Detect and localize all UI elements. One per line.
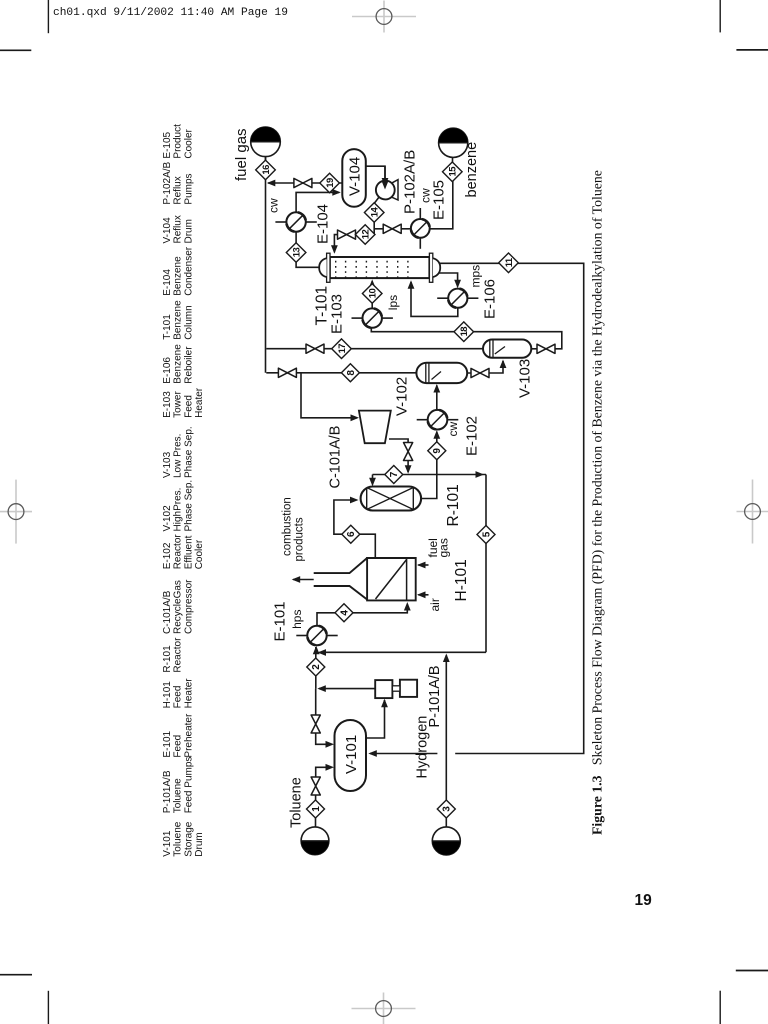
wire stream 10 to T-101 feed [371, 281, 373, 285]
svg-text:Benzene: Benzene [173, 256, 184, 296]
top-right crop mark vertical [719, 0, 721, 32]
svg-text:ch01.qxd 9/11/2002 11:40 AM: ch01.qxd 9/11/2002 11:40 AM Page 19 [53, 7, 288, 19]
svg-text:E-103: E-103 [329, 294, 346, 334]
svg-text:P-102A/B: P-102A/B [402, 150, 419, 214]
svg-text:fuel gas: fuel gas [233, 128, 250, 181]
wire V-102 liquid to valve [467, 361, 503, 373]
wire P-102 discharge [374, 197, 379, 234]
reactor R-101 [361, 487, 422, 511]
valve V-103 vapor to fuel [306, 344, 324, 353]
valve V-102 liquid letdown [471, 368, 489, 377]
stream diamond 11 [499, 253, 519, 273]
arrow combustion products [292, 576, 301, 583]
svg-text:Low Pres.: Low Pres. [173, 434, 184, 478]
svg-text:HighPres.: HighPres. [173, 488, 184, 532]
svg-text:Feed: Feed [183, 395, 194, 418]
wire H-101 coil outlet riser [360, 534, 375, 558]
svg-text:V-103: V-103 [517, 359, 534, 398]
bottom-left crop mark vertical [47, 991, 49, 1024]
svg-text:18: 18 [459, 327, 470, 337]
wire stream 16 to fuel gas sphere [265, 157, 267, 161]
wire V-104 vapor purge line [268, 182, 342, 184]
svg-text:V-102: V-102 [162, 505, 173, 532]
svg-text:Drum: Drum [194, 832, 205, 856]
svg-text:E-104: E-104 [162, 269, 173, 296]
svg-text:Reflux: Reflux [173, 215, 184, 243]
svg-text:Heater: Heater [194, 387, 205, 418]
wire T-101 bottoms draw to E-106 [438, 273, 458, 287]
svg-text:combustion: combustion [282, 497, 294, 556]
registration mark left [0, 480, 32, 544]
svg-text:14: 14 [370, 207, 381, 218]
svg-text:RecycleGas: RecycleGas [173, 580, 184, 634]
arrow on recycle header to downcomer [476, 471, 485, 478]
svg-text:H-101: H-101 [453, 559, 470, 601]
svg-text:16: 16 [261, 165, 272, 175]
svg-text:V-104: V-104 [347, 157, 364, 196]
vessel V-101 toluene feed drum [335, 720, 367, 791]
wire stream 2 to E-101 [315, 647, 317, 658]
fuel gas sphere [251, 127, 281, 157]
wire V-103 overhead line stream 17 [266, 348, 483, 350]
registration mark bottom [352, 993, 416, 1024]
svg-text:V-102: V-102 [394, 377, 411, 416]
fired heater H-101 [314, 558, 416, 600]
wire stream 1 to valve [315, 795, 317, 800]
wire E-101 outlet to stream 4 [317, 613, 335, 626]
top-left crop mark horizontal [0, 49, 31, 51]
compressor C-101A/B [359, 411, 391, 444]
stream diamond 18 [454, 322, 474, 342]
svg-text:C-101A/B: C-101A/B [328, 426, 344, 489]
arrow air into H-101 [417, 591, 426, 598]
svg-text:Reactor: Reactor [173, 534, 184, 570]
storage sphere toluene [301, 827, 329, 855]
arrow E-106 vapor return into T-101 [408, 280, 415, 289]
wire combustion products outlet [293, 579, 314, 581]
stream diamond 4 [335, 604, 353, 622]
wire C-101 discharge [389, 439, 408, 443]
svg-text:P-102A/B: P-102A/B [162, 161, 173, 204]
svg-text:benzene: benzene [464, 142, 480, 198]
valve V-102 purge to fuel [278, 368, 296, 377]
wire header to fuel gas sphere [265, 157, 267, 179]
arrow C-101 discharge into header [405, 465, 412, 474]
svg-text:15: 15 [448, 166, 459, 177]
svg-text:11: 11 [504, 257, 515, 267]
svg-text:H-101: H-101 [162, 681, 173, 709]
wire toluene sphere to stream 1 [315, 818, 317, 827]
svg-text:Preheater: Preheater [183, 713, 194, 758]
wire recycle header drop into reactor [372, 475, 374, 485]
wire V-102 overhead line [266, 372, 416, 374]
arrow P-101 discharge junction [317, 685, 326, 692]
svg-text:Figure 1.3 Skeleton Process F: Figure 1.3 Skeleton Process Flow Diagram… [590, 170, 606, 835]
stream diamond 7 [385, 466, 403, 484]
arrow purge into fuel header [267, 180, 276, 187]
svg-text:Benzene: Benzene [172, 344, 183, 384]
arrow into E-106 [454, 280, 461, 289]
valve spillback to V-101 [311, 715, 320, 733]
distillation column T-101 [319, 253, 440, 282]
svg-text:5: 5 [481, 531, 492, 537]
svg-text:19: 19 [635, 892, 653, 909]
wire feed line junction to stream 2 [315, 676, 317, 688]
svg-text:6: 6 [346, 531, 357, 537]
arrow into V-101 upper inlet [326, 741, 335, 748]
heat exchanger E-103 tower feed heater [352, 308, 393, 327]
svg-text:products: products [294, 517, 306, 561]
valve benzene product [383, 224, 401, 233]
svg-text:V-104: V-104 [162, 217, 173, 244]
wire E-104 to V-104 [296, 192, 339, 212]
arrow into R-101 top [369, 478, 376, 487]
arrow into P-101 suction [381, 699, 388, 708]
heat exchanger E-102 reactor effluent cooler [417, 410, 459, 430]
stream diamond 8 [341, 364, 359, 382]
svg-text:air: air [428, 598, 442, 611]
svg-text:E-104: E-104 [315, 204, 332, 244]
svg-text:7: 7 [389, 471, 400, 477]
wire V-104 liquid to P-102 [366, 166, 385, 185]
wire stream 11 return to V-101 [370, 753, 437, 755]
svg-text:Cooler: Cooler [183, 128, 194, 158]
svg-text:gas: gas [437, 538, 451, 557]
arrow hydrogen into mixing line [443, 654, 450, 663]
stream diamond 15 [443, 162, 463, 182]
stream diamond 16 [256, 160, 276, 180]
wire stream 3 to mixing line [445, 655, 447, 800]
svg-text:V-103: V-103 [162, 451, 173, 478]
svg-text:cw: cw [267, 198, 281, 213]
valve reflux [338, 230, 356, 239]
svg-text:cw: cw [446, 422, 460, 437]
benzene product sphere [439, 128, 468, 157]
heat exchanger E-105 product cooler [411, 208, 430, 249]
svg-text:1: 1 [311, 806, 322, 812]
svg-text:E-102: E-102 [162, 542, 173, 569]
wire hydrogen sphere to stream 3 [445, 818, 447, 827]
arrow stream 11 into V-101 [368, 750, 377, 757]
stream diamond 2 [307, 658, 325, 676]
wire reflux product tee to E-105 [374, 228, 411, 230]
wire fuel gas header [265, 161, 267, 373]
svg-text:Product: Product [173, 124, 184, 159]
svg-text:Reflux: Reflux [173, 176, 184, 204]
svg-text:E-106: E-106 [162, 357, 173, 384]
wire compressor suction branch [301, 373, 357, 418]
svg-text:E-101: E-101 [272, 601, 289, 641]
valve V-104 purge [294, 178, 312, 187]
wire T-101 bottoms stream 11 line [438, 263, 584, 753]
svg-text:R-101: R-101 [162, 645, 173, 673]
svg-text:3: 3 [442, 806, 453, 812]
svg-text:P-101A/B: P-101A/B [162, 770, 173, 813]
arrow into V-102 [433, 384, 440, 393]
svg-text:12: 12 [361, 230, 372, 240]
stream diamond 5 [477, 526, 495, 544]
equipment summary table [162, 124, 205, 857]
arrow fuel gas into H-101 [417, 562, 426, 569]
svg-text:hps: hps [290, 610, 304, 629]
stream diamond 3 [437, 800, 455, 818]
wire stream 15 to benzene sphere [452, 158, 454, 163]
svg-text:Heater: Heater [183, 678, 194, 709]
svg-text:17: 17 [337, 344, 348, 354]
bottom-left crop mark horizontal [0, 974, 32, 976]
stream diamond 12 [355, 225, 375, 245]
svg-text:Feed: Feed [172, 686, 183, 709]
svg-text:Drum: Drum [183, 219, 194, 243]
svg-text:Benzene: Benzene [173, 300, 184, 340]
heat exchanger E-104 benzene condenser [275, 212, 316, 231]
registration mark top [352, 1, 416, 33]
svg-text:Feed: Feed [173, 735, 184, 758]
wire air stub H-101 [418, 594, 428, 596]
svg-text:8: 8 [346, 370, 357, 376]
label fuel gas H-101 [426, 538, 451, 557]
wire stream 4 to H-101 coil inlet [353, 604, 407, 613]
stream diamond 6 [342, 525, 360, 543]
arrow into T-101 feed [369, 279, 376, 288]
svg-text:T-101: T-101 [162, 314, 173, 340]
valve C-101 discharge [404, 443, 413, 461]
svg-text:E-101: E-101 [162, 730, 173, 757]
svg-text:E-102: E-102 [464, 416, 481, 456]
svg-text:Cooler: Cooler [194, 539, 205, 569]
wire V-103 liquid line [371, 329, 562, 349]
svg-text:9: 9 [432, 448, 443, 454]
wire recycle gas mixing line [319, 651, 486, 653]
svg-text:Feed Pumps: Feed Pumps [183, 757, 194, 814]
svg-text:Toluene: Toluene [289, 777, 305, 828]
wire E-103 outlet to stream 10 [371, 303, 373, 309]
top-right crop mark horizontal [736, 49, 768, 51]
svg-text:V-101: V-101 [343, 735, 360, 774]
svg-text:E-105: E-105 [162, 131, 173, 158]
svg-text:13: 13 [292, 248, 303, 258]
valve V-103 liquid [537, 344, 555, 353]
svg-text:E-106: E-106 [482, 279, 499, 319]
wire V-101 outlet to pumps [366, 700, 385, 738]
arrow into H-101 coil inlet [404, 602, 411, 611]
top-left crop mark vertical [47, 0, 49, 33]
bottom-right crop mark horizontal [736, 970, 768, 972]
svg-text:2: 2 [311, 664, 322, 670]
wire valve to V-101 toluene inlet [316, 767, 332, 777]
svg-text:Phase Sep.: Phase Sep. [183, 480, 194, 532]
wire reflux line to T-101 [334, 235, 355, 253]
arrow reflux into T-101 top [331, 245, 338, 254]
storage sphere hydrogen [432, 827, 460, 855]
svg-text:Storage: Storage [183, 821, 194, 856]
arrow into C-101 suction [351, 414, 360, 421]
svg-text:Compressor: Compressor [183, 579, 194, 634]
arrow recycle into feed riser [318, 649, 327, 656]
wire recycle gas downcomer with stream 5 [485, 475, 487, 653]
svg-text:Hydrogen: Hydrogen [415, 716, 431, 779]
svg-text:Reboiler: Reboiler [183, 346, 194, 384]
heat exchanger E-101 feed preheater [296, 626, 337, 645]
svg-text:R-101: R-101 [445, 484, 462, 526]
svg-text:4: 4 [339, 610, 350, 616]
stream diamond 17 [332, 339, 352, 359]
svg-text:E-103: E-103 [162, 391, 173, 418]
svg-text:Effluent: Effluent [183, 535, 194, 569]
arrow into R-101 inlet [350, 497, 359, 504]
svg-text:Toluene: Toluene [173, 821, 184, 856]
wire main feed riser valve segment [315, 689, 317, 715]
stream diamond 14 [364, 203, 384, 223]
svg-text:Column: Column [183, 305, 194, 339]
svg-text:mps: mps [469, 265, 483, 288]
svg-text:10: 10 [368, 289, 379, 299]
arrow into V-103 inlet [500, 360, 507, 369]
stream diamond 10 [362, 284, 382, 304]
stream diamond 19 [320, 173, 340, 193]
wire R-101 outlet to E-102 [421, 432, 437, 499]
valve toluene feed [311, 777, 320, 795]
wire E-102 to V-102 [436, 385, 438, 410]
stream diamond 9 [428, 442, 446, 460]
svg-text:Condenser: Condenser [183, 246, 194, 296]
svg-text:C-101A/B: C-101A/B [162, 590, 173, 634]
svg-text:lps: lps [386, 295, 400, 310]
wire spillback valve to V-101 upper inlet [316, 733, 332, 744]
vessel V-104 reflux drum [342, 149, 366, 207]
svg-text:Tower: Tower [173, 391, 184, 418]
vessel V-103 low pressure phase separator [483, 340, 531, 358]
arrow into V-101 toluene inlet [326, 764, 335, 771]
svg-text:E-105: E-105 [431, 180, 448, 220]
wire C-101 discharge valve to header [407, 460, 409, 472]
wire E-105 to benzene riser [430, 181, 453, 229]
svg-text:cw: cw [419, 188, 433, 203]
wire stream 6 to reactor corner [334, 500, 357, 534]
svg-text:Reactor: Reactor [173, 637, 184, 673]
wire T-101 overhead to E-104 [296, 232, 319, 267]
stream diamond 1 [307, 800, 325, 818]
arrow into E-101 inlet [313, 646, 320, 655]
pump P-102A/B [376, 166, 398, 200]
heat exchanger E-106 benzene reboiler [437, 289, 478, 308]
arrow into V-104 [332, 189, 341, 196]
vessel V-102 high pressure phase separator [416, 363, 467, 383]
wire E-106 return to T-101 [411, 282, 458, 316]
bottom-right crop mark vertical [719, 991, 721, 1024]
svg-text:Pumps: Pumps [183, 173, 194, 204]
wire fuel gas stub H-101 [418, 564, 428, 566]
stream diamond 13 [286, 243, 306, 263]
pumps P-101A/B [375, 680, 417, 698]
svg-text:Toluene: Toluene [173, 778, 184, 813]
arrow into P-102 suction [382, 178, 389, 187]
svg-text:19: 19 [325, 178, 336, 188]
wire reactor inlet recycle header [373, 474, 487, 476]
svg-text:V-101: V-101 [162, 830, 173, 857]
registration mark right [737, 480, 768, 544]
arrow into E-102 [433, 430, 440, 439]
wire P-101 discharge to feed line [319, 688, 375, 690]
svg-text:Phase Sep.: Phase Sep. [183, 426, 194, 478]
